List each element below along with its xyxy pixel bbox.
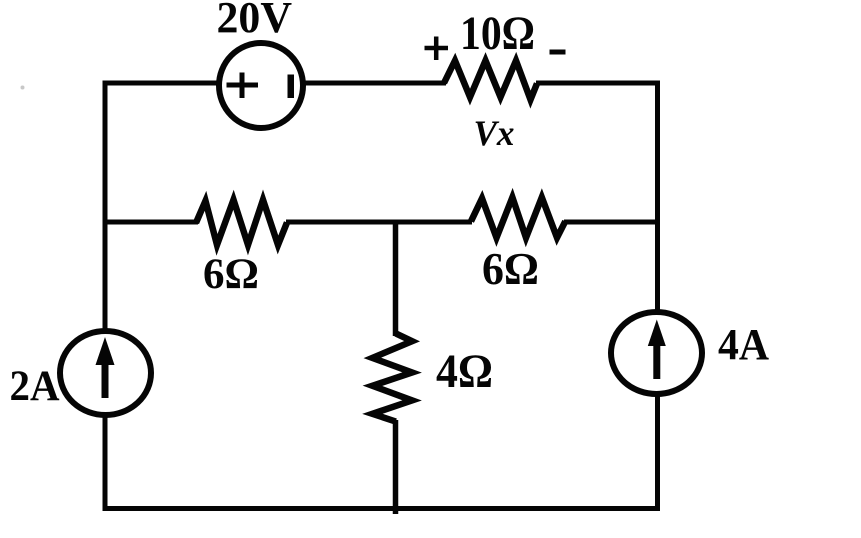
label 4A [718, 320, 769, 369]
svg-text:2A: 2A [10, 363, 60, 410]
label 6Ω right [482, 243, 539, 294]
wire middle vertical lower segment [393, 420, 399, 514]
wire middle horizontal right segment [564, 220, 660, 225]
current source 2A [60, 331, 151, 415]
current source 4A [611, 312, 702, 394]
svg-text:6Ω: 6Ω [482, 243, 539, 294]
label Vx [474, 113, 515, 153]
svg-text:4Ω: 4Ω [436, 345, 493, 398]
label 10Ω [460, 7, 535, 60]
svg-text:Vx: Vx [474, 113, 515, 153]
wire middle horizontal center segment [286, 220, 472, 225]
wire middle horizontal left segment [103, 220, 198, 225]
wire left vertical lower segment [103, 415, 108, 508]
label 6Ω left [203, 251, 259, 298]
wire left vertical upper segment [103, 81, 108, 331]
wire top horizontal left segment [105, 81, 218, 86]
wire right vertical upper segment [655, 81, 660, 314]
faint scan speck artifact [21, 86, 25, 90]
label 4Ω [436, 345, 493, 398]
resistor R 10Ω [444, 61, 537, 100]
wire top horizontal right segment [536, 81, 660, 86]
voltage source 20V [219, 43, 303, 128]
svg-text:6Ω: 6Ω [203, 251, 259, 298]
wire top horizontal middle segment [304, 81, 446, 86]
svg-text:10Ω: 10Ω [460, 7, 535, 60]
wire middle vertical upper segment [393, 222, 399, 336]
polarity minus of Vx [550, 50, 566, 55]
wire right vertical lower segment [655, 394, 660, 511]
svg-text:4A: 4A [718, 320, 769, 369]
label 20V [217, 0, 293, 42]
polarity plus of Vx [425, 37, 449, 61]
wire bottom horizontal segment [103, 506, 661, 511]
resistor R 6Ω left [196, 200, 287, 245]
resistor R 6Ω right [471, 197, 565, 237]
label 2A [10, 363, 60, 410]
svg-text:20V: 20V [217, 0, 293, 42]
resistor R 4Ω [372, 333, 412, 421]
